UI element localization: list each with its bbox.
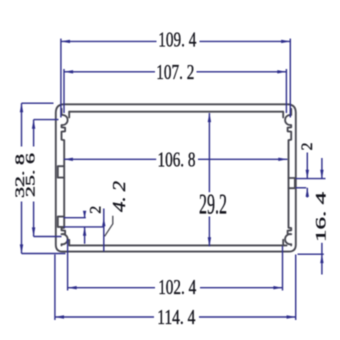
svg-text:102. 4: 102. 4 (158, 275, 196, 299)
svg-text:106. 8: 106. 8 (158, 147, 196, 171)
svg-text:2: 2 (299, 143, 316, 151)
svg-text:4. 2: 4. 2 (109, 181, 129, 212)
svg-text:107. 2: 107. 2 (156, 60, 194, 84)
svg-text:25. 6: 25. 6 (23, 152, 38, 197)
svg-text:29.2: 29.2 (199, 189, 227, 221)
svg-text:109. 4: 109. 4 (158, 28, 196, 52)
svg-text:16. 4: 16. 4 (314, 191, 330, 242)
svg-text:2: 2 (87, 206, 104, 214)
svg-text:114. 4: 114. 4 (157, 305, 195, 329)
